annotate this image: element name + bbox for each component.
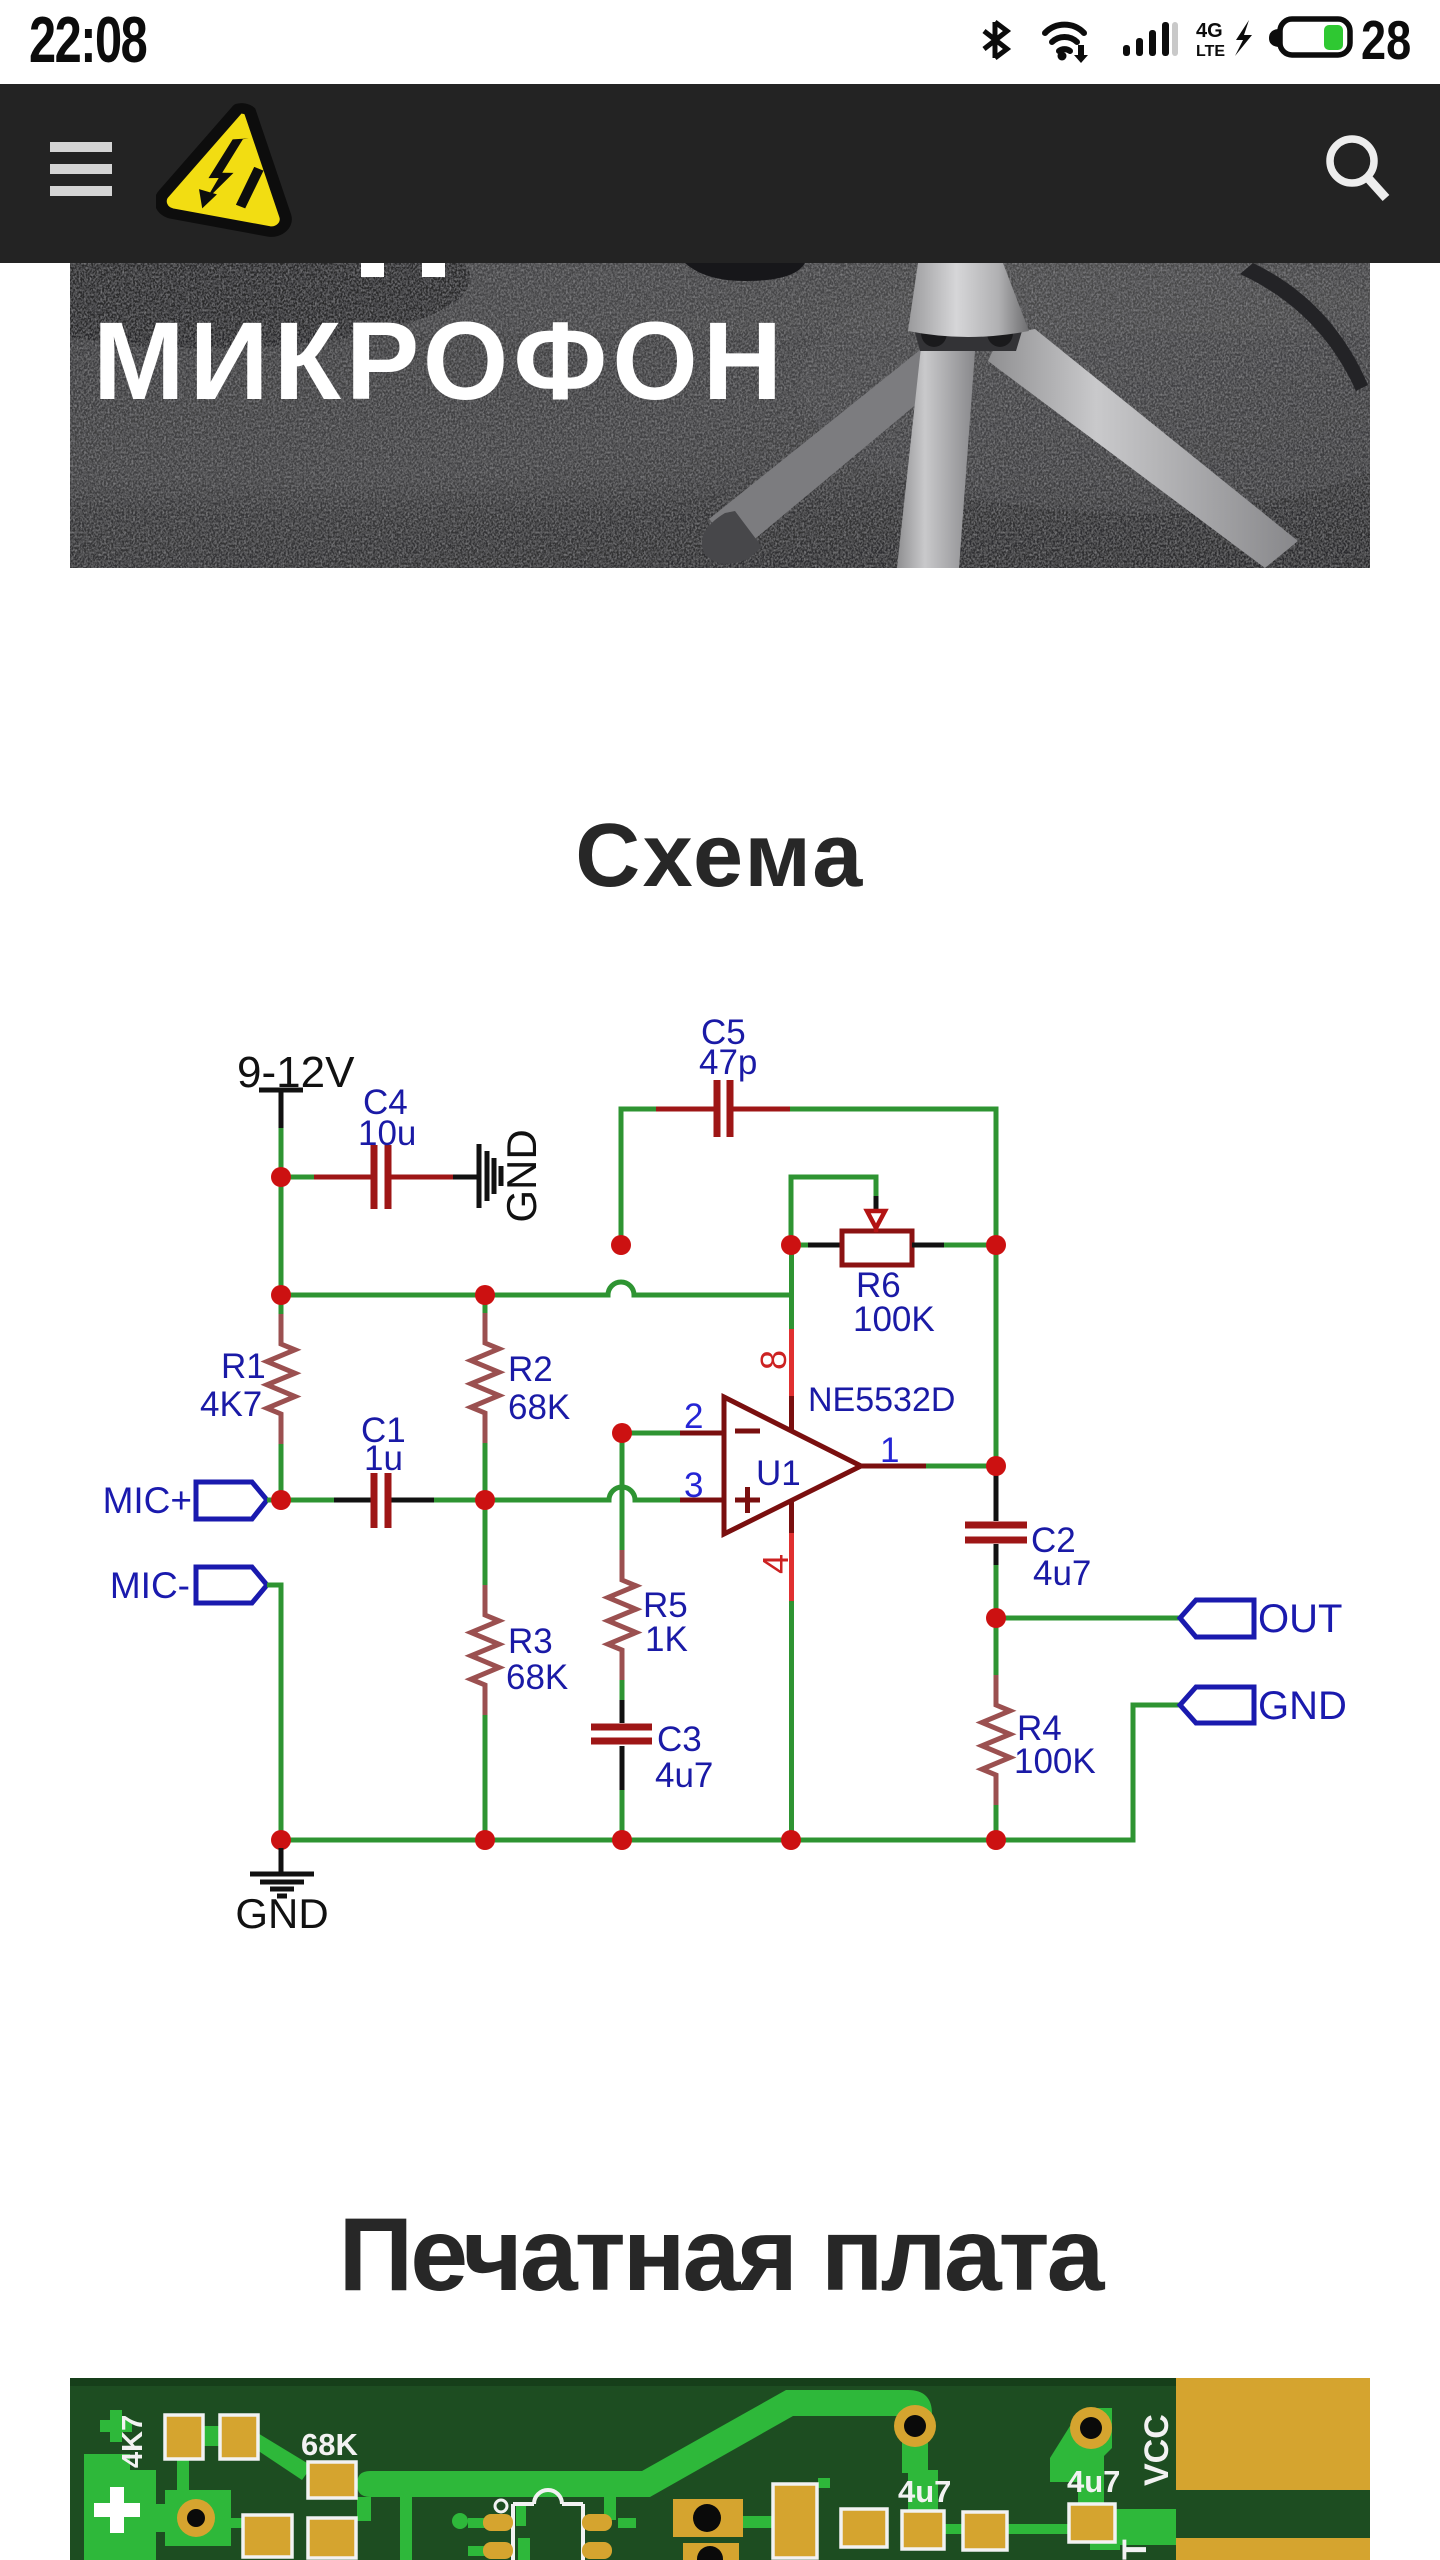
svg-text:C3: C3 [657, 1720, 702, 1759]
traces at SOIC [468, 2518, 488, 2528]
silk labels [117, 2414, 1176, 2560]
R6 wiper arrow [867, 1211, 885, 1232]
junction ground rail / MIC- [271, 1830, 291, 1850]
connector MIC+ [103, 1480, 281, 1521]
ground (rotated, after C4) [453, 1129, 545, 1222]
svg-text:GND: GND [1258, 1684, 1347, 1728]
svg-text:R3: R3 [508, 1622, 553, 1661]
svg-text:28: 28 [1361, 9, 1411, 71]
svg-text:MIC-: MIC- [110, 1565, 190, 1606]
heading Печатная плата [0, 2196, 1440, 2315]
svg-text:R2: R2 [508, 1350, 553, 1389]
signal bars [1123, 22, 1169, 56]
svg-text:4u7: 4u7 [898, 2474, 951, 2509]
wifi [1045, 25, 1084, 51]
connector GND [1180, 1684, 1347, 1728]
svg-text:4u7: 4u7 [1033, 1554, 1091, 1593]
svg-text:1: 1 [880, 1431, 899, 1470]
svg-text:U1: U1 [756, 1454, 801, 1493]
white cross in pour [94, 2487, 140, 2533]
cable [1240, 263, 1368, 391]
cut-off letter stems [361, 263, 384, 277]
junction inverting input node [612, 1423, 632, 1443]
wire feedback top rail (C5 row) [621, 1109, 996, 1245]
svg-text:GND: GND [498, 1129, 545, 1222]
ground (bottom) [235, 1848, 328, 1937]
svg-text:8: 8 [753, 1350, 794, 1370]
connector MIC- [110, 1565, 267, 1606]
4G LTE [1196, 20, 1225, 60]
svg-text:4u7: 4u7 [655, 1756, 713, 1795]
wire MIC- to ground rail [267, 1585, 281, 1840]
potentiometer R6 [791, 1231, 996, 1339]
svg-text:4K7: 4K7 [200, 1385, 262, 1424]
status bar [0, 0, 1440, 84]
wire R6 wiper [791, 1177, 876, 1245]
pin 8 [753, 1245, 794, 1430]
junction ground rail / R4 [986, 1830, 1006, 1850]
wire R1 bottom [279, 1444, 284, 1500]
mic body bottom edge [685, 263, 805, 281]
PCB image [70, 2378, 1370, 2560]
heading Схема [0, 805, 1440, 908]
junction op-amp output node [986, 1456, 1006, 1476]
+ cross top [100, 2410, 132, 2442]
svg-text:GND: GND [235, 1890, 328, 1937]
SOIC-8 footprint [483, 2490, 612, 2560]
top band to via1 elbow [860, 2390, 932, 2438]
wire output feedback vertical [994, 1245, 999, 1466]
svg-text:LTE: LTE [1196, 43, 1225, 60]
svg-text:OUT: OUT [1258, 1597, 1342, 1641]
capacitor C5 [656, 1013, 790, 1137]
pin 1 (output) [861, 1431, 996, 1470]
via1 pad trace down to cap pad [902, 2440, 928, 2473]
battery [1269, 19, 1350, 55]
capacitor C3 [591, 1700, 713, 1840]
junction C1 / R2 / R3 node [475, 1490, 495, 1510]
wire GND connector to rail [281, 1705, 1180, 1840]
svg-text:68K: 68K [508, 1388, 570, 1427]
header bar [0, 84, 1440, 263]
mid pads with holes (no outline) [673, 2499, 743, 2560]
svg-text:47p: 47p [699, 1043, 757, 1082]
op-amp U1 [724, 1397, 861, 1534]
tripod left leg [702, 350, 943, 564]
connector OUT [1180, 1597, 1342, 1641]
node 9-12V power label [237, 1048, 355, 1128]
collar cone [908, 263, 1029, 337]
trace mid pads [742, 2516, 812, 2528]
junction bias row / R2 top [475, 1285, 495, 1305]
svg-text:10u: 10u [358, 1114, 416, 1153]
gold pads [165, 2415, 1115, 2558]
site logo: yellow warning triangle [156, 97, 322, 241]
junction OUT node [986, 1608, 1006, 1628]
wire V+ rail vertical [279, 1128, 284, 1314]
resistor R2 [471, 1295, 570, 1500]
svg-text:VCC: VCC [1138, 2414, 1176, 2486]
junction C5 left / feedback [611, 1235, 631, 1255]
svg-text:100K: 100K [853, 1300, 935, 1339]
svg-text:4u7: 4u7 [1067, 2464, 1120, 2499]
bluetooth [984, 22, 1007, 58]
svg-text:NE5532D: NE5532D [808, 1381, 955, 1419]
junction V+ / bias row [271, 1285, 291, 1305]
trace pads R1 [177, 2456, 189, 2496]
junction R6 left / wiper [781, 1235, 801, 1255]
wide GND trace with diagonal to top right [357, 2390, 876, 2497]
resistor R4 [982, 1618, 1096, 1840]
pin 4 [755, 1501, 796, 1840]
resistor R3 [471, 1500, 568, 1840]
svg-text:68K: 68K [506, 1658, 568, 1697]
svg-text:1u: 1u [364, 1439, 403, 1478]
right OUT band [1116, 2509, 1176, 2545]
resistor R1 [200, 1314, 295, 1444]
wire bias row y=1295 with hop over x=621 [281, 1282, 791, 1295]
gold circle pad left [177, 2499, 215, 2537]
search icon [1324, 132, 1396, 204]
svg-text:3: 3 [684, 1466, 703, 1505]
charging bolt [1235, 20, 1252, 56]
svg-text:T: T [1116, 2539, 1154, 2560]
svg-text:1K: 1K [645, 1620, 688, 1659]
svg-text:4: 4 [755, 1554, 796, 1574]
junction ground rail / pin 4 [781, 1830, 801, 1850]
junction MIC+ node [271, 1490, 291, 1510]
svg-text:68K: 68K [301, 2427, 358, 2462]
capacitor C4 [314, 1083, 453, 1209]
tripod middle leg [897, 338, 976, 568]
via2 elbow trace [1050, 2408, 1112, 2482]
tripod right leg [988, 329, 1298, 568]
left + pour [84, 2454, 156, 2560]
svg-text:4K7: 4K7 [117, 2415, 149, 2468]
junction ground rail / R3 [475, 1830, 495, 1850]
vias [894, 2405, 1112, 2449]
junction R6 right / output column [986, 1235, 1006, 1255]
svg-text:МИКРОФОН: МИКРОФОН [93, 300, 787, 423]
wire +input row with hop over x=622 [485, 1487, 680, 1500]
wire OUT [996, 1616, 1180, 1621]
svg-text:4G: 4G [1196, 20, 1223, 42]
svg-text:R1: R1 [221, 1347, 266, 1386]
svg-text:2: 2 [684, 1397, 703, 1436]
right gold planes [1176, 2378, 1370, 2490]
wire to pin 2 [622, 1431, 680, 1436]
status icons [960, 0, 1440, 84]
pin 3 [680, 1466, 724, 1505]
capacitor C2 [965, 1466, 1091, 1618]
banner photo [70, 263, 1370, 568]
capacitor C1 [281, 1411, 485, 1528]
trace from band down to IC area [400, 2490, 412, 2560]
hamburger menu icon [50, 142, 112, 200]
resistor R5 [608, 1433, 688, 1700]
junction V+ / C4 tap [271, 1167, 291, 1187]
svg-text:100K: 100K [1014, 1742, 1096, 1781]
junction ground rail / C3 [612, 1830, 632, 1850]
pin 2 [680, 1397, 724, 1436]
wire C4 tap [281, 1175, 314, 1180]
svg-text:MIC+: MIC+ [103, 1480, 192, 1521]
small green dot [452, 2513, 468, 2529]
collar joint dark [912, 321, 1025, 351]
